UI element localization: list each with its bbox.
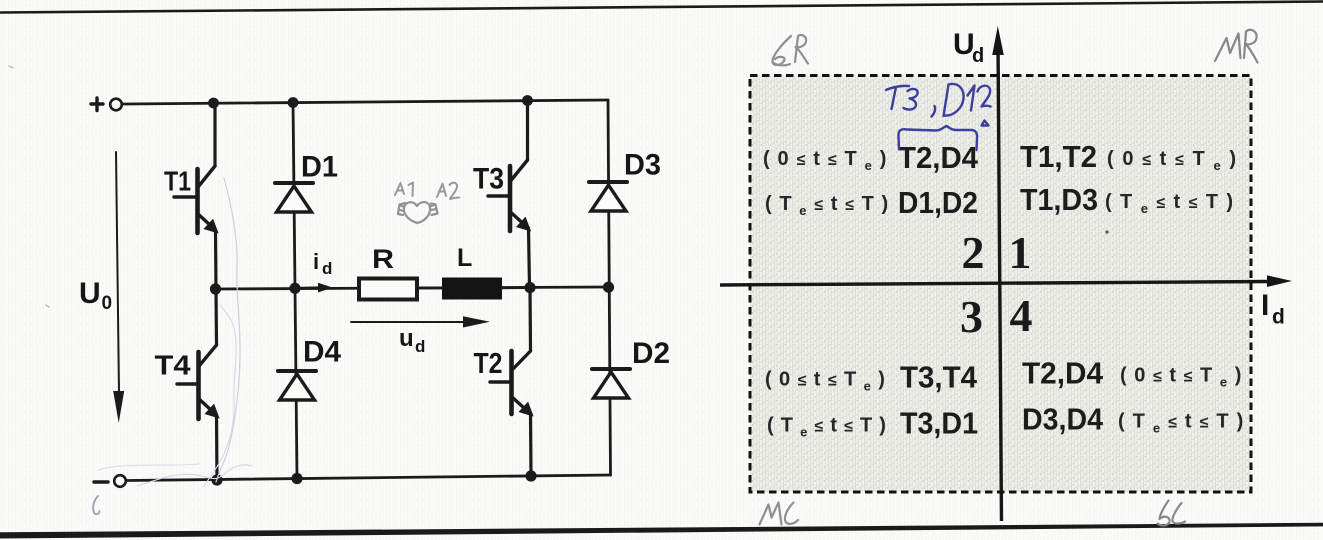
svg-text:D3,D4: D3,D4 <box>1022 402 1104 437</box>
svg-text:0: 0 <box>102 293 113 314</box>
junction node bottom-T2 <box>525 470 536 481</box>
pencil note GL bottom-right <box>1158 501 1186 526</box>
svg-text:T1: T1 <box>164 166 191 197</box>
quadrant box shaded fill <box>750 76 1251 493</box>
pencil note MR top-right <box>1215 30 1258 63</box>
diode D4 <box>278 371 316 400</box>
faint bleed-through curve long <box>216 178 240 482</box>
svg-text:(Te≤t≤T): (Te≤t≤T) <box>767 415 893 440</box>
inductor L <box>442 278 502 300</box>
faint bleed-through curve bottom <box>137 465 252 486</box>
svg-text:T3,T4: T3,T4 <box>900 360 978 395</box>
junction node mid-T3 <box>524 282 535 293</box>
svg-text:d: d <box>972 45 984 67</box>
minus terminal label <box>94 480 108 483</box>
faint pencil wave lower-left <box>98 464 200 470</box>
transistor T1 <box>174 102 217 289</box>
junction node mid-T1 <box>210 283 221 294</box>
plus terminal label <box>91 98 103 111</box>
junction node top-T1 <box>208 98 219 109</box>
id label <box>313 249 332 278</box>
diode D3 <box>589 182 627 211</box>
transistor T4 <box>177 289 218 481</box>
U0 label <box>79 277 112 314</box>
svg-text:D3: D3 <box>624 149 661 182</box>
axis Id horizontal <box>720 275 1292 287</box>
id current arrow <box>301 283 333 293</box>
svg-text:2: 2 <box>962 227 985 278</box>
junction node bottom-T4 <box>211 474 222 485</box>
diode D4 branch wire <box>295 288 297 478</box>
svg-text:D4: D4 <box>303 336 341 369</box>
junction node top-T3 <box>522 95 533 106</box>
svg-text:D1,D2: D1,D2 <box>898 185 978 220</box>
svg-text:4: 4 <box>1010 290 1033 341</box>
svg-text:d: d <box>322 259 332 278</box>
plus terminal circle <box>110 99 122 111</box>
wire top rail <box>123 100 609 104</box>
axis Ud vertical <box>992 26 1004 521</box>
transistor T2 <box>490 288 532 476</box>
Id axis label <box>1261 289 1285 329</box>
svg-text:d: d <box>1272 306 1285 329</box>
transistor T3 <box>488 100 530 288</box>
junction node top-D1 <box>288 97 299 108</box>
svg-text:R: R <box>372 244 394 274</box>
bottom frame line <box>0 523 1323 539</box>
U0 source arrow <box>113 152 124 423</box>
pencil squiggle under minus terminal <box>93 496 99 514</box>
wire right branch <box>608 100 611 475</box>
junction node bottom-D4 <box>291 473 302 484</box>
blue ink note T3,D12 <box>886 84 991 126</box>
Ud axis label <box>953 28 984 67</box>
junction node mid-D3 <box>603 282 614 293</box>
junction node mid-D1 <box>289 283 300 294</box>
printed stray dot <box>1105 230 1108 233</box>
pencil note GR top-left <box>772 35 808 65</box>
svg-text:T1,D3: T1,D3 <box>1020 182 1098 217</box>
diode D2 <box>592 369 630 398</box>
quadrant box dashed border <box>750 76 1251 493</box>
svg-text:1: 1 <box>1009 227 1032 278</box>
svg-text:T3,D1: T3,D1 <box>900 406 978 441</box>
wire middle rail <box>215 287 608 289</box>
svg-text:d: d <box>415 337 425 356</box>
blue ink brace around T2,D4 <box>898 126 977 150</box>
wire bottom rail <box>127 475 611 481</box>
svg-text:D1: D1 <box>301 151 338 184</box>
svg-text:T1,T2: T1,T2 <box>1020 139 1097 174</box>
svg-text:T2,D4: T2,D4 <box>1022 356 1104 391</box>
top frame line <box>0 2 1323 13</box>
ud label <box>399 325 425 356</box>
minus terminal circle <box>114 475 126 487</box>
svg-text:(Te≤t≤T): (Te≤t≤T) <box>1105 191 1241 216</box>
svg-text:D2: D2 <box>632 337 670 370</box>
svg-text:T4: T4 <box>155 350 191 381</box>
ud voltage arrow <box>351 316 490 327</box>
svg-text:U: U <box>79 277 101 310</box>
diode D1 <box>275 183 313 212</box>
svg-text:I: I <box>1261 289 1269 322</box>
svg-text:i: i <box>313 249 319 274</box>
svg-text:(Te≤t≤T): (Te≤t≤T) <box>1118 411 1251 436</box>
svg-text:T2,D4: T2,D4 <box>898 140 979 175</box>
svg-text:3: 3 <box>960 291 983 342</box>
wire R to L <box>417 287 442 290</box>
svg-text:L: L <box>457 244 472 272</box>
tiny pencil specks left margin <box>9 66 49 307</box>
pencil doodle heart <box>398 202 438 223</box>
svg-text:T3: T3 <box>473 163 504 196</box>
svg-text:(Te≤t≤T): (Te≤t≤T) <box>765 193 896 218</box>
pencil note ML bottom-left <box>760 503 799 525</box>
diode D1 branch wire <box>293 102 295 288</box>
pencil doodle A1 A2 <box>395 183 459 200</box>
faint bleed-through curve inner <box>204 305 236 486</box>
wire L to node <box>502 286 530 289</box>
svg-text:u: u <box>399 325 414 352</box>
resistor R <box>359 279 417 300</box>
svg-text:T2: T2 <box>474 348 503 380</box>
